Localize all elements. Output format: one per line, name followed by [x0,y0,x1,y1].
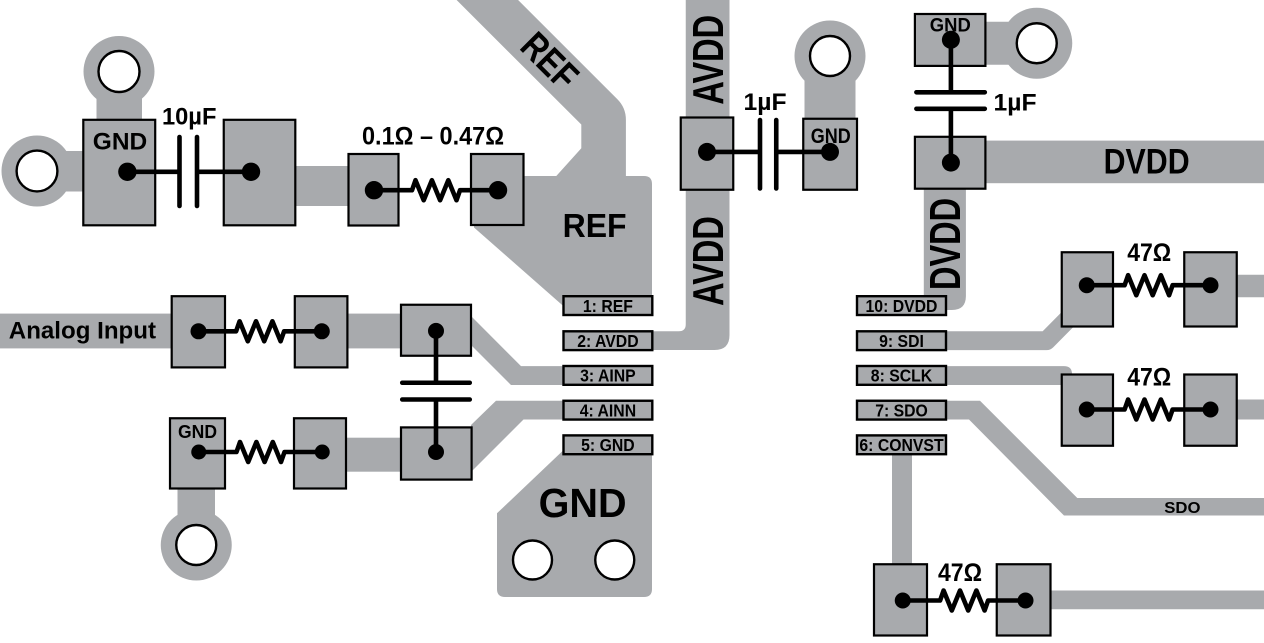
svg-text:5: GND: 5: GND [581,435,635,455]
svg-text:10: DVDD: 10: DVDD [866,296,938,316]
svg-text:REF: REF [563,207,627,244]
svg-text:6: CONVST: 6: CONVST [859,435,943,455]
svg-text:Analog Input: Analog Input [9,318,156,345]
svg-text:10µF: 10µF [162,103,217,130]
svg-text:1µF: 1µF [994,89,1037,116]
svg-text:SDO: SDO [1164,500,1200,517]
svg-text:DVDD: DVDD [1104,142,1190,181]
svg-text:GND: GND [930,15,971,36]
svg-text:AVDD: AVDD [684,216,733,306]
svg-text:47Ω: 47Ω [1127,363,1171,391]
svg-text:GND: GND [811,125,851,148]
svg-text:0.1Ω – 0.47Ω: 0.1Ω – 0.47Ω [362,123,504,151]
svg-text:7: SDO: 7: SDO [875,401,928,421]
svg-text:8: SCLK: 8: SCLK [871,366,932,386]
svg-text:GND: GND [93,128,147,155]
svg-text:3: AINP: 3: AINP [580,366,636,386]
svg-text:1: REF: 1: REF [583,296,633,316]
svg-text:AVDD: AVDD [684,15,733,105]
svg-text:47Ω: 47Ω [938,559,982,587]
svg-text:4: AINN: 4: AINN [580,401,636,421]
svg-text:47Ω: 47Ω [1127,239,1171,267]
svg-text:1µF: 1µF [744,89,787,116]
svg-text:DVDD: DVDD [922,198,971,290]
svg-text:GND: GND [539,480,627,526]
svg-text:9: SDI: 9: SDI [879,331,924,351]
svg-text:GND: GND [178,422,217,442]
svg-text:2: AVDD: 2: AVDD [577,331,638,351]
